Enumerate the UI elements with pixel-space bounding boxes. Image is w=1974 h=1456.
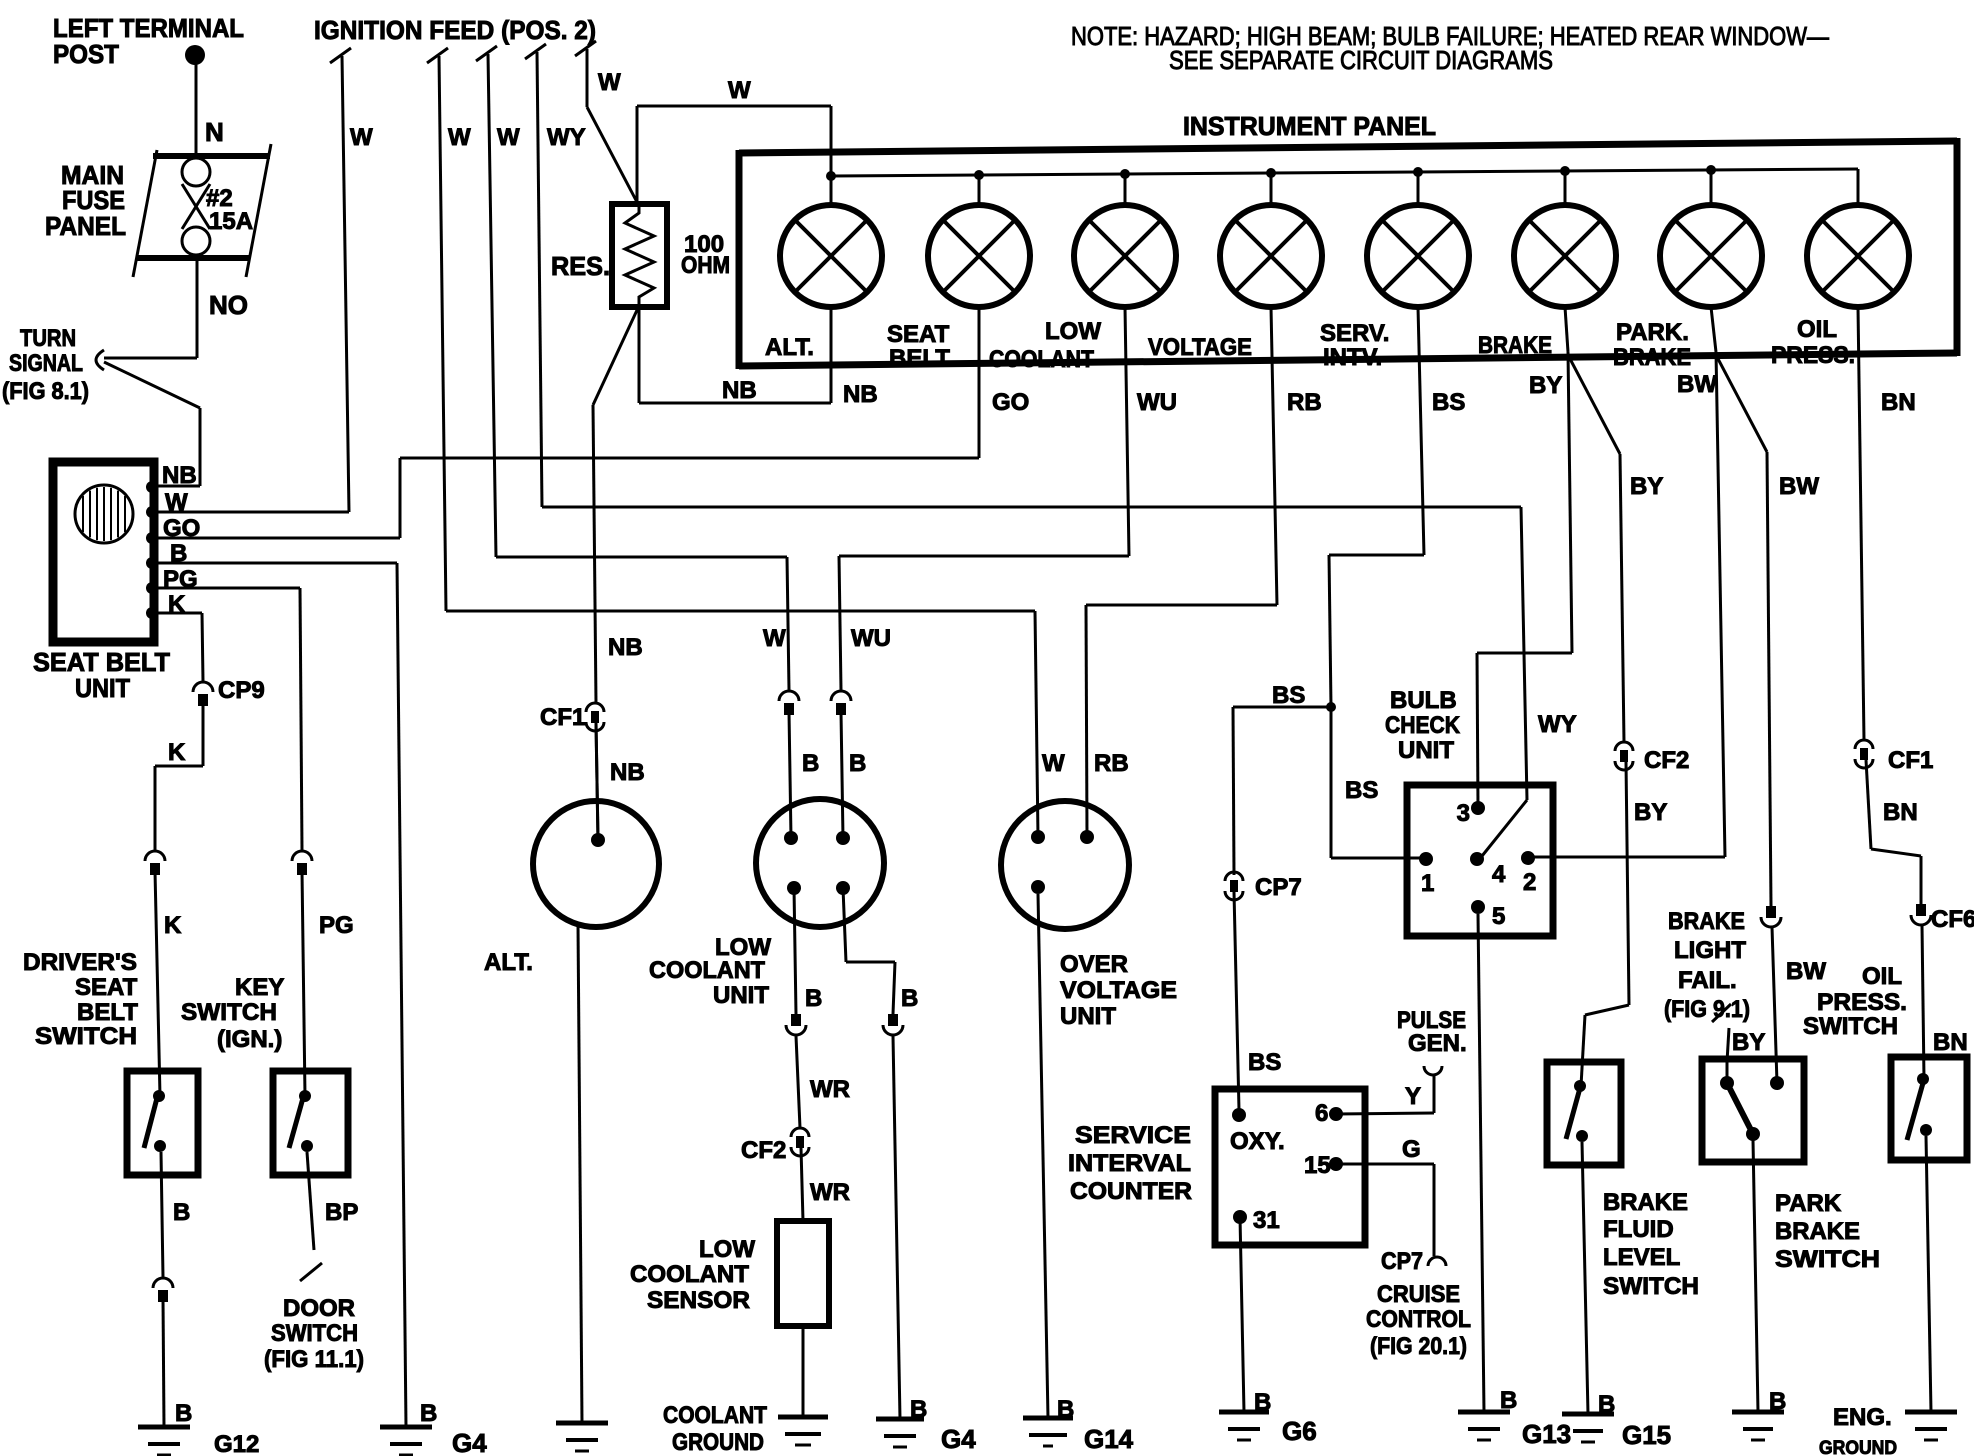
svg-text:CONTROL: CONTROL [1366, 1306, 1471, 1333]
svg-text:B: B [901, 985, 918, 1012]
svg-text:15A: 15A [209, 208, 253, 235]
svg-text:CHECK: CHECK [1385, 712, 1461, 739]
svg-text:6: 6 [1315, 1100, 1328, 1127]
svg-text:BP: BP [325, 1199, 358, 1226]
svg-text:CP9: CP9 [218, 677, 265, 704]
svg-text:GROUND: GROUND [672, 1429, 764, 1456]
svg-text:TURN: TURN [20, 325, 76, 352]
svg-text:SEAT: SEAT [887, 321, 950, 348]
svg-text:KEY: KEY [235, 974, 284, 1001]
svg-text:BS: BS [1272, 682, 1305, 709]
svg-text:1: 1 [1421, 870, 1434, 897]
svg-text:BRAKE: BRAKE [1775, 1218, 1860, 1245]
svg-text:ALT.: ALT. [484, 949, 533, 976]
svg-text:CF2: CF2 [741, 1137, 786, 1164]
svg-text:BS: BS [1345, 777, 1378, 804]
svg-text:OIL: OIL [1797, 316, 1837, 343]
svg-text:CP7: CP7 [1255, 874, 1302, 901]
svg-text:VOLTAGE: VOLTAGE [1060, 977, 1177, 1004]
svg-text:RES.: RES. [551, 251, 610, 281]
svg-text:SWITCH: SWITCH [1803, 1013, 1898, 1040]
svg-text:W: W [497, 124, 520, 151]
svg-text:NB: NB [722, 377, 757, 404]
svg-text:WR: WR [810, 1179, 850, 1206]
svg-text:BW: BW [1779, 473, 1819, 500]
svg-text:CF1: CF1 [1888, 747, 1933, 774]
svg-text:PRESS.: PRESS. [1817, 989, 1907, 1016]
svg-text:BELT: BELT [77, 999, 138, 1026]
svg-text:SIGNAL: SIGNAL [9, 350, 83, 377]
svg-text:G6: G6 [1282, 1416, 1317, 1446]
svg-text:(FIG 9.1): (FIG 9.1) [1664, 996, 1750, 1023]
svg-text:INTERVAL: INTERVAL [1068, 1150, 1191, 1177]
svg-text:CP7: CP7 [1381, 1248, 1423, 1275]
svg-text:(FIG 8.1): (FIG 8.1) [2, 378, 89, 405]
svg-text:SERVICE: SERVICE [1075, 1122, 1191, 1149]
svg-text:COOLANT: COOLANT [663, 1402, 767, 1429]
svg-text:BN: BN [1933, 1029, 1968, 1056]
svg-text:OIL: OIL [1862, 963, 1902, 990]
svg-text:B: B [849, 750, 866, 777]
svg-text:GO: GO [992, 389, 1029, 416]
svg-text:SEE SEPARATE CIRCUIT DIAGRAMS: SEE SEPARATE CIRCUIT DIAGRAMS [1169, 45, 1553, 75]
svg-text:SERV.: SERV. [1320, 320, 1389, 347]
svg-text:31: 31 [1253, 1207, 1280, 1234]
svg-text:B: B [420, 1400, 437, 1427]
svg-text:UNIT: UNIT [1060, 1003, 1116, 1030]
svg-text:BN: BN [1881, 389, 1916, 416]
svg-text:ENG.: ENG. [1833, 1404, 1892, 1431]
svg-text:BRAKE: BRAKE [1478, 332, 1552, 359]
svg-text:CF2: CF2 [1644, 747, 1689, 774]
svg-text:UNIT: UNIT [1398, 737, 1454, 764]
svg-text:DOOR: DOOR [283, 1295, 355, 1322]
svg-text:2: 2 [1523, 869, 1536, 896]
svg-text:(IGN.): (IGN.) [217, 1026, 282, 1053]
svg-text:UNIT: UNIT [713, 982, 769, 1009]
svg-text:BELT: BELT [889, 345, 950, 372]
svg-text:PRESS.: PRESS. [1771, 342, 1855, 369]
svg-text:G4: G4 [941, 1424, 976, 1454]
svg-text:UNIT: UNIT [75, 673, 130, 703]
svg-text:LOW: LOW [699, 1236, 755, 1263]
svg-text:CRUISE: CRUISE [1377, 1281, 1460, 1308]
svg-text:G4: G4 [452, 1428, 487, 1456]
svg-text:LIGHT: LIGHT [1674, 937, 1746, 964]
svg-text:W: W [763, 625, 786, 652]
svg-text:W: W [728, 77, 751, 104]
svg-text:(FIG 11.1): (FIG 11.1) [264, 1346, 364, 1373]
svg-text:W: W [448, 124, 471, 151]
svg-text:WY: WY [1538, 711, 1577, 738]
svg-text:4: 4 [1492, 861, 1506, 888]
svg-text:IGNITION FEED (POS. 2): IGNITION FEED (POS. 2) [314, 15, 596, 45]
svg-text:SWITCH: SWITCH [271, 1320, 358, 1347]
svg-text:ALT.: ALT. [765, 334, 814, 361]
svg-text:B: B [802, 750, 819, 777]
svg-text:SEAT: SEAT [75, 974, 138, 1001]
svg-text:INSTRUMENT PANEL: INSTRUMENT PANEL [1183, 111, 1436, 141]
svg-text:NO: NO [209, 290, 248, 320]
svg-text:BS: BS [1432, 389, 1465, 416]
svg-text:15: 15 [1304, 1152, 1331, 1179]
svg-text:COOLANT: COOLANT [649, 957, 765, 984]
svg-text:(FIG 20.1): (FIG 20.1) [1370, 1333, 1467, 1360]
svg-text:G13: G13 [1522, 1419, 1571, 1449]
svg-text:GEN.: GEN. [1408, 1030, 1467, 1057]
svg-text:BS: BS [1248, 1049, 1281, 1076]
svg-text:LEVEL: LEVEL [1603, 1244, 1680, 1271]
svg-text:B: B [175, 1400, 192, 1427]
svg-text:SWITCH: SWITCH [1603, 1273, 1699, 1300]
svg-text:INTV.: INTV. [1323, 344, 1382, 371]
svg-text:B: B [805, 985, 822, 1012]
svg-text:WR: WR [810, 1076, 850, 1103]
svg-text:G15: G15 [1622, 1420, 1671, 1450]
svg-text:G: G [1402, 1136, 1421, 1163]
svg-text:SWITCH: SWITCH [181, 999, 277, 1026]
svg-text:BY: BY [1630, 473, 1663, 500]
svg-text:RB: RB [1094, 750, 1129, 777]
svg-text:BY: BY [1732, 1029, 1765, 1056]
svg-text:RB: RB [1287, 389, 1322, 416]
svg-text:LOW: LOW [1045, 318, 1101, 345]
svg-text:BY: BY [1529, 372, 1562, 399]
svg-text:PANEL: PANEL [45, 211, 126, 241]
svg-text:SWITCH: SWITCH [35, 1023, 137, 1050]
svg-text:OVER: OVER [1060, 951, 1128, 978]
svg-text:WU: WU [1137, 389, 1177, 416]
svg-text:BN: BN [1883, 799, 1918, 826]
svg-text:CF1: CF1 [540, 704, 585, 731]
svg-text:BW: BW [1786, 958, 1826, 985]
svg-text:NB: NB [843, 381, 878, 408]
svg-text:3: 3 [1457, 800, 1470, 827]
svg-text:PARK.: PARK. [1616, 319, 1689, 346]
svg-text:W: W [1042, 750, 1065, 777]
svg-text:B: B [173, 1199, 190, 1226]
svg-text:Y: Y [1405, 1083, 1421, 1110]
svg-text:WU: WU [851, 625, 891, 652]
svg-text:BRAKE: BRAKE [1668, 908, 1745, 935]
svg-text:COOLANT: COOLANT [989, 346, 1094, 373]
svg-text:BW: BW [1677, 371, 1717, 398]
svg-text:BRAKE: BRAKE [1613, 344, 1691, 371]
svg-text:K: K [164, 912, 182, 939]
svg-text:POST: POST [53, 39, 119, 69]
svg-text:BY: BY [1634, 799, 1667, 826]
svg-text:GROUND: GROUND [1819, 1438, 1897, 1456]
svg-text:FLUID: FLUID [1603, 1216, 1674, 1243]
svg-text:SWITCH: SWITCH [1775, 1246, 1880, 1273]
svg-text:PARK: PARK [1775, 1190, 1842, 1217]
svg-text:NB: NB [608, 634, 643, 661]
svg-text:OHM: OHM [681, 252, 730, 279]
svg-text:N: N [205, 117, 224, 147]
svg-text:SENSOR: SENSOR [647, 1287, 750, 1314]
svg-text:VOLTAGE: VOLTAGE [1148, 334, 1252, 361]
svg-text:G14: G14 [1084, 1424, 1134, 1454]
svg-text:G12: G12 [214, 1431, 259, 1456]
svg-text:NB: NB [162, 462, 197, 489]
svg-text:FAIL.: FAIL. [1678, 967, 1737, 994]
svg-text:COOLANT: COOLANT [630, 1261, 749, 1288]
svg-text:PG: PG [319, 912, 354, 939]
svg-text:WY: WY [547, 124, 586, 151]
svg-text:CF6: CF6 [1931, 906, 1974, 933]
svg-text:OXY.: OXY. [1230, 1128, 1285, 1155]
svg-text:DRIVER'S: DRIVER'S [23, 949, 137, 976]
svg-text:W: W [598, 69, 621, 96]
svg-text:BRAKE: BRAKE [1603, 1189, 1688, 1216]
svg-text:K: K [168, 739, 186, 766]
svg-text:W: W [350, 124, 373, 151]
svg-text:NB: NB [610, 759, 645, 786]
svg-text:5: 5 [1492, 903, 1505, 930]
svg-text:COUNTER: COUNTER [1070, 1178, 1192, 1205]
svg-text:BULB: BULB [1390, 687, 1457, 714]
